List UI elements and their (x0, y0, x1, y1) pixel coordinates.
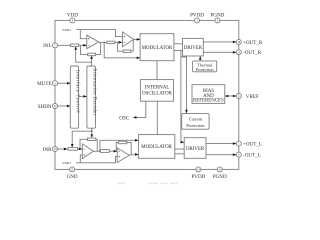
svg-text:REFERENCES: REFERENCES (193, 99, 224, 104)
svg-text:SHDN: SHDN (38, 104, 52, 110)
svg-text:DRIVER: DRIVER (186, 147, 205, 152)
svg-text:Interface Control: Interface Control (75, 70, 80, 113)
svg-text:+OUT_L: +OUT_L (243, 142, 262, 148)
svg-text:VREF: VREF (246, 94, 259, 100)
svg-text:-OUT_R: -OUT_R (243, 50, 262, 56)
svg-text:PVDD: PVDD (190, 12, 204, 18)
svg-text:Attenuation Decoder: Attenuation Decoder (91, 68, 96, 116)
svg-text:DRIVER: DRIVER (184, 46, 203, 51)
svg-text:PGND: PGND (213, 174, 227, 180)
svg-text:INL: INL (43, 43, 52, 49)
svg-text:OSC: OSC (119, 115, 130, 121)
svg-text:-OUT_L: -OUT_L (243, 153, 261, 159)
svg-text:INR: INR (43, 147, 52, 153)
svg-text:GND: GND (67, 174, 78, 180)
svg-text:Protection: Protection (196, 67, 215, 72)
svg-text:OSCILLATOR: OSCILLATOR (142, 91, 173, 96)
svg-text:MODULATOR: MODULATOR (141, 145, 172, 150)
svg-text:MODULATOR: MODULATOR (142, 46, 173, 51)
svg-text:PGND: PGND (210, 12, 224, 18)
svg-text:MUTE: MUTE (37, 81, 51, 87)
svg-text:+OUT_R: +OUT_R (243, 40, 263, 46)
svg-text:INTERNAL: INTERNAL (145, 85, 169, 90)
svg-text:VDD: VDD (67, 12, 78, 18)
svg-text:Protection: Protection (186, 123, 205, 128)
svg-text:VDD1: VDD1 (62, 28, 71, 32)
svg-text:Current: Current (189, 117, 203, 122)
svg-text:PVDD: PVDD (191, 174, 205, 180)
svg-text:VDD1: VDD1 (62, 161, 71, 165)
